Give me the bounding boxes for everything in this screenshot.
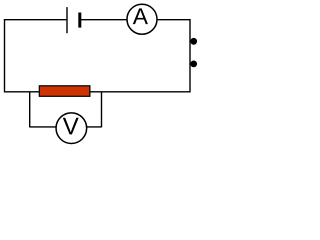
wire ammeter to top-right corner [157, 19, 190, 21]
battery cell: long plate [66, 7, 68, 33]
wire bottom [5, 91, 191, 93]
resistor R1 (red box) [39, 86, 90, 97]
voltmeter branch right vertical wire [101, 92, 103, 128]
voltmeter branch left vertical wire [29, 92, 31, 128]
voltmeter U2 circle [56, 113, 87, 144]
battery cell: short thick plate [78, 13, 81, 28]
wire top-left (left corner to battery) [5, 19, 67, 21]
wire left vertical [4, 19, 6, 93]
voltmeter label V [63, 118, 79, 135]
ammeter label A [133, 8, 148, 24]
terminal dot lower [190, 61, 197, 68]
wire battery to ammeter [80, 19, 127, 21]
ammeter U1 circle [127, 4, 157, 34]
terminal dot upper [190, 38, 197, 45]
voltmeter branch horizontal wire [30, 126, 102, 128]
wire right vertical [189, 19, 191, 93]
